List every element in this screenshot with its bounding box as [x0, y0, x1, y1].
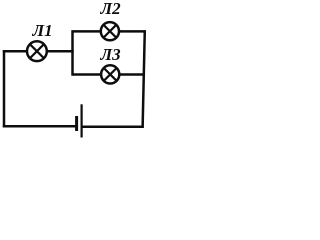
label lamp L1 — [33, 22, 53, 39]
battery GB1: long thin plate (positive) — [80, 104, 82, 137]
wire: right vertical side — [143, 30, 145, 128]
lamp L1 — [27, 41, 47, 61]
wire: upper branch, junction to lamp L2 — [73, 30, 102, 33]
junction bar (left node of parallel branch) — [71, 30, 74, 75]
wire: lamp L3 to right vertical side — [119, 73, 145, 76]
label lamp L2 — [101, 0, 121, 17]
wire: left vertical side — [3, 50, 6, 128]
lamp L3 — [101, 65, 119, 83]
wire: lamp L1 to left junction bar — [47, 50, 74, 53]
wire: top-left horizontal to lamp L1 — [3, 50, 28, 53]
wire: bottom right horizontal from battery — [82, 126, 144, 129]
battery GB1: short thick plate (negative) — [75, 116, 78, 131]
label lamp L3 — [101, 46, 121, 63]
wire: lower branch, junction to lamp L3 — [73, 73, 102, 76]
wire: bottom left horizontal to battery — [3, 125, 76, 128]
wire: lamp L2 to right vertical side — [119, 30, 146, 33]
lamp L2 — [101, 22, 119, 40]
